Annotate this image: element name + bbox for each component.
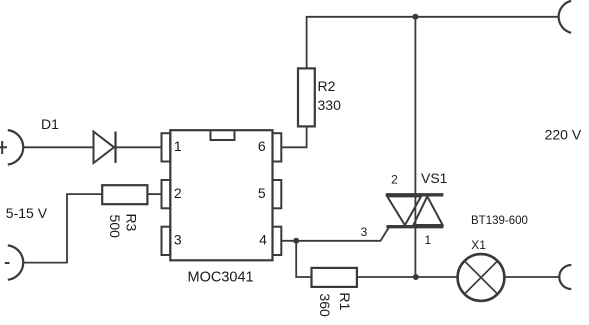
svg-text:X1: X1	[471, 238, 486, 252]
svg-text:5-15 V: 5-15 V	[6, 205, 48, 221]
svg-text:2: 2	[174, 185, 182, 201]
svg-text:R3: R3	[124, 213, 140, 231]
svg-text:R2: R2	[318, 78, 336, 94]
svg-text:3: 3	[361, 225, 368, 239]
svg-text:VS1: VS1	[421, 170, 448, 186]
svg-text:500: 500	[107, 215, 123, 239]
svg-text:330: 330	[318, 97, 342, 113]
svg-text:6: 6	[258, 138, 266, 154]
svg-text:3: 3	[174, 232, 182, 248]
svg-text:BT139-600: BT139-600	[471, 215, 528, 227]
svg-text:2: 2	[391, 173, 398, 187]
svg-text:1: 1	[424, 233, 431, 247]
svg-text:360: 360	[317, 293, 333, 317]
svg-text:R1: R1	[337, 292, 353, 310]
svg-text:220 V: 220 V	[545, 126, 582, 142]
svg-text:1: 1	[174, 138, 182, 154]
svg-text:D1: D1	[41, 116, 59, 132]
svg-text:5: 5	[258, 185, 266, 201]
svg-text:MOC3041: MOC3041	[188, 270, 254, 286]
svg-text:4: 4	[259, 232, 267, 248]
